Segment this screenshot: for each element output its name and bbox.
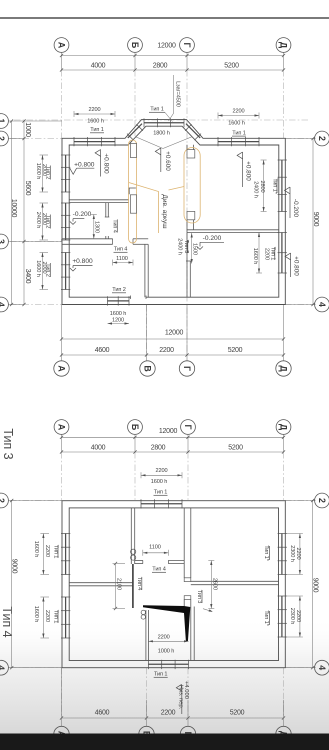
- svg-text:Тип 3: Тип 3: [1, 428, 15, 459]
- svg-text:1500: 1500: [192, 243, 198, 255]
- door jamb rects on wall B: [130, 143, 136, 157]
- svg-text:Тип 2: Тип 2: [45, 166, 51, 180]
- svg-text:2400 h: 2400 h: [176, 238, 182, 255]
- dim 2200/1600h bottom-right window: [258, 233, 260, 274]
- left window cluster W5: 2000/1600h/Tip2: [42, 253, 44, 290]
- grid line 4 horizontal: [10, 304, 62, 306]
- svg-text:Тип 1: Тип 1: [154, 672, 168, 678]
- grid bubble D bottom: [276, 361, 291, 376]
- svg-text:1600 h: 1600 h: [33, 541, 39, 558]
- svg-text:1100: 1100: [116, 256, 128, 262]
- grid horizontals: [10, 500, 62, 502]
- grid bubble A bottom: [54, 361, 69, 376]
- window W2 top-right wall: [218, 141, 259, 143]
- svg-text:+0.800: +0.800: [292, 256, 299, 276]
- top dim line segments 4000/2800/5200: [62, 69, 284, 71]
- svg-text:2: 2: [317, 136, 327, 141]
- svg-text:9000: 9000: [312, 578, 319, 593]
- svg-text:Низ. пер.: Низ. пер.: [178, 685, 184, 710]
- window top wall: [141, 503, 182, 505]
- svg-text:1: 1: [0, 119, 6, 124]
- dim 1500 wall D door: [191, 233, 193, 264]
- svg-text:Д: Д: [279, 424, 289, 431]
- vent circles top: [131, 549, 136, 554]
- svg-text:Lзаг=4500: Lзаг=4500: [175, 81, 181, 107]
- door jamb rects on wall D: [187, 150, 195, 158]
- left divider wall: [69, 582, 132, 584]
- right dim 9000: [285, 138, 314, 140]
- svg-text:2: 2: [0, 498, 6, 503]
- svg-text:Г: Г: [182, 43, 192, 48]
- svg-text:5200: 5200: [228, 347, 243, 354]
- svg-text:12000: 12000: [159, 428, 178, 435]
- svg-text:Тип 1*: Тип 1*: [263, 545, 269, 561]
- left dim 9000: [9, 500, 63, 502]
- svg-text:4: 4: [0, 665, 6, 670]
- left window cluster W3: 2000/1600h/Tip2: [42, 155, 44, 192]
- grid bubble A bottom cut: [54, 726, 69, 741]
- right lower window cluster: [299, 596, 301, 637]
- svg-text:4600: 4600: [95, 710, 110, 717]
- svg-text:Тип 1: Тип 1: [154, 490, 168, 496]
- svg-text:1600 h: 1600 h: [228, 120, 245, 126]
- svg-text:Тип 2: Тип 2: [45, 263, 51, 277]
- grid line 1 horizontal: [14, 119, 308, 121]
- svg-text:Тип 2: Тип 2: [45, 215, 51, 229]
- interior wall F vertical (room2 right): [105, 203, 107, 217]
- svg-text:+0.800: +0.800: [244, 161, 251, 181]
- svg-text:-0.200: -0.200: [203, 235, 222, 242]
- svg-text:2600: 2600: [211, 578, 217, 590]
- right divider wall: [191, 580, 279, 582]
- overall 10000 line: [11, 121, 13, 305]
- svg-text:Б: Б: [130, 424, 140, 431]
- svg-text:12000: 12000: [157, 43, 176, 50]
- svg-text:Б: Б: [130, 42, 140, 49]
- grid line 2 horizontal: [10, 138, 62, 140]
- grid line B vertical: [134, 53, 136, 71]
- black wedge stairs mark: [143, 605, 190, 641]
- left dim stack: [9, 120, 63, 122]
- svg-text:Тип 1*: Тип 1*: [271, 178, 277, 194]
- grid verticals: [61, 435, 63, 453]
- svg-text:1600 h: 1600 h: [151, 479, 168, 485]
- grid bubble 4 right: [315, 297, 329, 312]
- dim 2800/2400h big room window: [263, 160, 265, 212]
- svg-text:4000: 4000: [91, 445, 106, 452]
- svg-text:1600 h: 1600 h: [33, 606, 39, 623]
- svg-text:5200: 5200: [224, 63, 239, 70]
- window W7 right wall bottom room: [281, 233, 283, 274]
- svg-text:2800: 2800: [259, 180, 265, 192]
- svg-text:2200: 2200: [263, 248, 269, 260]
- window bottom wall: [148, 663, 188, 665]
- svg-text:Г: Г: [182, 366, 192, 371]
- grid bubble 4 right plan2: [315, 660, 329, 675]
- svg-text:Тип 4: Тип 4: [114, 247, 128, 253]
- svg-text:Тип 4: Тип 4: [112, 219, 118, 233]
- wall right of wedge: [190, 607, 192, 661]
- grid line A vertical: [61, 53, 63, 71]
- svg-text:4: 4: [0, 302, 6, 307]
- top dim line 12000: [62, 436, 284, 438]
- bottom dim line segments 4600/2200/5200: [62, 354, 284, 356]
- svg-text:2200: 2200: [159, 347, 174, 354]
- svg-text:Тип 3: Тип 3: [196, 590, 202, 604]
- grid bubble G top plan2: [181, 420, 196, 435]
- grid line V vertical (bottom): [146, 305, 148, 356]
- svg-text:Д: Д: [279, 365, 289, 372]
- svg-text:2200: 2200: [88, 107, 100, 113]
- svg-text:2200: 2200: [44, 545, 50, 557]
- wall G vertical middle: [183, 600, 185, 607]
- top segment dims 4000/2800/5200: [62, 451, 284, 453]
- window bay right diagonal: [186, 124, 200, 138]
- svg-text:2300 h: 2300 h: [289, 608, 295, 625]
- svg-text:Тип 4: Тип 4: [152, 567, 166, 573]
- svg-text:Тип 1: Тип 1: [150, 107, 164, 113]
- middle room top wall with 1100 door: [135, 559, 143, 561]
- svg-text:9000: 9000: [11, 559, 18, 574]
- grid line 3 horizontal: [10, 241, 62, 243]
- svg-text:1600 h: 1600 h: [87, 118, 104, 124]
- svg-text:5600: 5600: [24, 181, 31, 196]
- svg-text:+0.800: +0.800: [72, 258, 93, 265]
- grid bubble D top: [276, 38, 291, 53]
- svg-text:2200: 2200: [161, 710, 176, 717]
- grid line D vertical: [283, 53, 285, 71]
- svg-text:1200: 1200: [112, 318, 124, 324]
- interior wall E horizontal (bottom-right room top): [187, 229, 279, 231]
- interior wall grid3 thick: [62, 238, 113, 240]
- right dim 9000 plan2: [285, 500, 314, 502]
- svg-text:2200: 2200: [44, 610, 50, 622]
- svg-text:1600 h: 1600 h: [252, 248, 258, 265]
- svg-text:2200: 2200: [155, 468, 167, 474]
- svg-text:2400 h: 2400 h: [252, 181, 258, 198]
- grid bubble 3 left: [0, 234, 8, 249]
- svg-text:А: А: [57, 42, 67, 49]
- svg-text:2: 2: [0, 136, 6, 141]
- interior wall D upper gray faces: [186, 220, 188, 233]
- segment line 1000/5600/3400: [23, 121, 25, 305]
- svg-text:Тип 1: Тип 1: [269, 247, 275, 261]
- window W3 left wall room1: [65, 155, 67, 192]
- svg-text:Г: Г: [183, 425, 193, 430]
- svg-text:А: А: [57, 424, 67, 431]
- grid bubble G bottom: [179, 361, 194, 376]
- door jamb rects wall G: [184, 578, 191, 582]
- window right wall upper: [281, 534, 283, 575]
- window left wall upper: [65, 534, 67, 575]
- grid bubble V bottom: [140, 361, 155, 376]
- svg-text:1800 h: 1800 h: [153, 131, 170, 137]
- svg-text:Тип 1: Тип 1: [90, 127, 104, 133]
- dim 2200 window W2: [218, 115, 259, 117]
- svg-text:1000: 1000: [24, 122, 31, 137]
- bottom gradient shadow: [0, 615, 329, 734]
- window W8 bottom wall: [108, 300, 130, 302]
- svg-text:Див. аркуш: Див. аркуш: [161, 194, 168, 228]
- svg-text:2: 2: [317, 498, 327, 503]
- grid bubble G top: [180, 38, 195, 53]
- svg-text:А: А: [57, 365, 67, 372]
- svg-text:1000 h: 1000 h: [158, 649, 175, 655]
- svg-text:4: 4: [317, 665, 327, 670]
- interior wall B2 vertical: [130, 508, 132, 564]
- grid bubble 2 right: [315, 131, 329, 146]
- grid bubble B top: [128, 38, 143, 53]
- grid bubble 4 left: [0, 297, 8, 312]
- window bay front: [144, 122, 184, 124]
- svg-text:4600: 4600: [95, 347, 110, 354]
- grid line G vertical: [186, 53, 188, 71]
- grid bubble A top: [54, 38, 69, 53]
- window W6 right wall big room: [281, 160, 283, 212]
- svg-text:2100: 2100: [116, 578, 122, 590]
- grid bubble 2 right plan2: [315, 493, 329, 508]
- svg-text:+0.800: +0.800: [74, 161, 95, 168]
- svg-text:Тип 1: Тип 1: [52, 545, 58, 559]
- svg-text:Тип 1*: Тип 1*: [263, 610, 269, 626]
- top dim line 12000: [62, 55, 284, 57]
- grid bubble G bottom cut: [180, 726, 195, 741]
- wall G vertical upper: [183, 508, 185, 578]
- svg-text:3400: 3400: [24, 269, 31, 284]
- window W5 left wall room3: [65, 253, 67, 290]
- sheet frame top border: [0, 17, 329, 19]
- grid bubble V bottom cut: [139, 726, 154, 741]
- outer wall outer face: [62, 501, 285, 668]
- outer wall inner face: [69, 126, 279, 297]
- bottom black bar: [0, 734, 329, 750]
- orange arch stadium left (wall B): [129, 140, 137, 243]
- bay double-door swing lines: [135, 137, 163, 149]
- svg-text:Д: Д: [279, 42, 289, 49]
- grid bubble 2 left plan2: [0, 493, 8, 508]
- svg-text:2200: 2200: [158, 635, 170, 641]
- svg-text:3: 3: [0, 239, 6, 244]
- grid bubble 2 left: [0, 131, 8, 146]
- door dark line in wall B2: [132, 564, 134, 608]
- orange leader + text Div. arkush: [129, 183, 159, 234]
- outer wall outer face: [62, 120, 285, 305]
- svg-text:10000: 10000: [10, 199, 17, 218]
- svg-text:2800: 2800: [151, 445, 166, 452]
- vent circles near wedge: [141, 610, 145, 614]
- svg-text:2800: 2800: [153, 63, 168, 70]
- window W1 top-left wall: [74, 141, 115, 143]
- window left wall lower: [65, 597, 67, 638]
- right upper window cluster: [299, 534, 301, 575]
- interior wall D lower vertical with door: [186, 232, 188, 297]
- svg-text:12000: 12000: [165, 330, 184, 337]
- grid bubble 4 left plan2: [0, 660, 8, 675]
- dim 2200 window W1: [74, 113, 115, 115]
- grid bubble D top plan2: [276, 420, 291, 435]
- window right wall lower: [281, 596, 283, 637]
- svg-text:5200: 5200: [230, 710, 245, 717]
- svg-text:Тип 1: Тип 1: [52, 610, 58, 624]
- svg-text:4000: 4000: [91, 63, 106, 70]
- left lower window cluster: [42, 597, 44, 638]
- interior wall A horizontal: [69, 199, 128, 201]
- svg-text:В: В: [143, 365, 153, 371]
- svg-text:2200: 2200: [232, 109, 244, 115]
- svg-text:+0.800: +0.800: [102, 153, 109, 174]
- svg-text:-0.200: -0.200: [73, 211, 92, 218]
- svg-text:1100: 1100: [149, 545, 161, 551]
- grid bubble A top plan2: [54, 420, 69, 435]
- svg-text:Тип 4: Тип 4: [136, 577, 142, 591]
- svg-text:1600 h: 1600 h: [35, 163, 41, 180]
- bottom dim line 12000: [62, 338, 284, 340]
- grid bubble B top plan2: [128, 420, 143, 435]
- svg-text:1600 h: 1600 h: [110, 311, 127, 317]
- interior wall C vertical: [144, 244, 146, 297]
- dim 1300 room2: [93, 215, 95, 239]
- dim 2100 door left: [115, 564, 117, 609]
- svg-text:1300: 1300: [93, 221, 99, 233]
- window W4 left wall room2: [65, 203, 67, 240]
- svg-text:Тип 1: Тип 1: [232, 130, 246, 136]
- orange arch stadium right (wall D opening): [184, 148, 200, 224]
- bottom middle room left wall: [145, 610, 147, 661]
- svg-text:9000: 9000: [312, 212, 319, 227]
- window bay left diagonal: [128, 124, 142, 138]
- grid bubble D bottom cut: [276, 726, 291, 741]
- svg-text:2400 h: 2400 h: [35, 212, 41, 229]
- outer wall inner face: [69, 508, 278, 661]
- svg-text:-0.200: -0.200: [292, 199, 299, 218]
- bottom dim line plan2: [62, 717, 284, 719]
- svg-text:4: 4: [317, 302, 327, 307]
- left upper window cluster: [42, 534, 44, 575]
- svg-text:Тип 2: Тип 2: [112, 287, 126, 293]
- left window cluster W4: 2000/2400h/Tip2: [42, 203, 44, 240]
- svg-text:5200: 5200: [228, 445, 243, 452]
- svg-text:2300 h: 2300 h: [289, 545, 295, 562]
- dim 2600: [210, 561, 212, 609]
- grid bubble 1 left: [0, 114, 8, 129]
- svg-text:1600 h: 1600 h: [35, 260, 41, 277]
- svg-text:+0.600: +0.600: [164, 151, 171, 171]
